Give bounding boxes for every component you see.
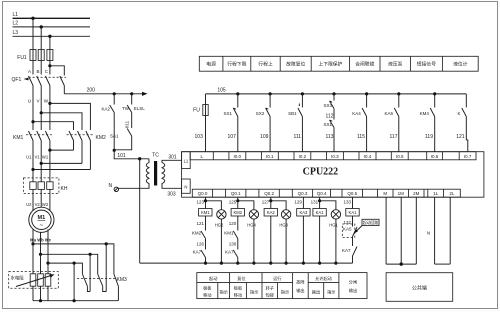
- terminal L1: [182, 152, 191, 169]
- svg-text:复位: 复位: [237, 275, 245, 282]
- node N symbol: [109, 183, 119, 192]
- wire rotor c to KM3 pole1: [48, 263, 82, 274]
- junction bottom bus riser c: [73, 299, 76, 302]
- wire rotor c: [47, 229, 49, 263]
- wire Q0.3 branch: [302, 197, 304, 208]
- junction V crossover: [40, 111, 43, 114]
- svg-text:L2: L2: [13, 21, 19, 27]
- svg-text:合闸联锁: 合闸联锁: [355, 61, 374, 68]
- svg-text:KA2: KA2: [102, 107, 111, 112]
- junction rotor a feed: [31, 242, 34, 245]
- contact KA5 latched: [342, 224, 357, 246]
- svg-text:131: 131: [311, 200, 319, 205]
- junction 200-TW: [130, 92, 133, 95]
- contactor KM3 pole3: [114, 274, 119, 301]
- svg-text:M: M: [383, 191, 387, 196]
- svg-text:运行: 运行: [273, 275, 281, 282]
- svg-text:KA2: KA2: [267, 210, 276, 215]
- svg-text:I0.4: I0.4: [364, 154, 372, 159]
- wire Q0.1 branch: [237, 197, 239, 208]
- wire W to KM2 pole3: [50, 103, 91, 130]
- svg-text:水电阻: 水电阻: [11, 275, 25, 282]
- lamp HG4: [249, 210, 258, 219]
- wire 2M down: [415, 197, 417, 264]
- contactor KM3 linkage: [77, 278, 115, 280]
- wire lamp HG4 down: [253, 219, 255, 263]
- junction lamp HG4 bus: [252, 262, 255, 265]
- svg-text:125: 125: [229, 200, 237, 205]
- breaker QF1 pole C: [45, 76, 50, 101]
- coil KA3: [297, 209, 310, 217]
- junction KA1 branch bus: [318, 262, 321, 265]
- wire W2 to motor: [49, 204, 51, 211]
- wire phase B drop: [40, 27, 42, 50]
- wire A to breaker: [32, 61, 34, 75]
- coil KM1: [199, 209, 212, 217]
- junction 105-KA5: [397, 92, 400, 95]
- terminal N: [182, 179, 191, 193]
- svg-text:117: 117: [390, 134, 398, 140]
- svg-text:KA4: KA4: [352, 111, 361, 116]
- svg-text:输出: 输出: [296, 287, 304, 294]
- wire 2L down: [449, 197, 451, 264]
- wire N riser: [139, 159, 141, 263]
- svg-text:129: 129: [294, 200, 302, 205]
- svg-text:A: A: [28, 69, 31, 74]
- svg-text:I0.1: I0.1: [266, 154, 274, 159]
- svg-text:I0.3: I0.3: [331, 154, 339, 159]
- lamp HG2: [217, 210, 226, 219]
- svg-text:电源: 电源: [206, 61, 216, 68]
- svg-text:I0.0: I0.0: [234, 154, 242, 159]
- lamp HG3: [281, 210, 290, 219]
- contact KA5: [394, 94, 399, 152]
- wire lamp HG2 down: [220, 219, 222, 263]
- wire lamp HG1 down: [335, 219, 337, 263]
- junction on L3: [48, 35, 51, 38]
- breaker QF1 pole A: [29, 76, 34, 101]
- water resistor arrow: [16, 274, 55, 286]
- svg-text:转子: 转子: [266, 285, 274, 292]
- svg-text:130: 130: [229, 242, 237, 247]
- junction C tap: [48, 64, 51, 67]
- wire U to KM2 pole1: [33, 122, 74, 130]
- junction N riser top: [138, 157, 141, 160]
- svg-text:FU: FU: [193, 108, 200, 114]
- breaker QF1 arrow: [24, 78, 29, 81]
- svg-text:126: 126: [196, 242, 204, 247]
- junction lamp HG2 bus: [220, 262, 223, 265]
- signal legend table: [199, 56, 478, 71]
- svg-text:HG2: HG2: [215, 223, 224, 228]
- junction rotor b feed: [39, 253, 42, 256]
- svg-text:FU1: FU1: [17, 55, 27, 61]
- svg-text:KA5: KA5: [384, 111, 393, 116]
- fuse FU: [203, 94, 208, 152]
- svg-text:移动: 移动: [203, 292, 211, 299]
- junction U crossover: [31, 120, 34, 123]
- svg-text:101: 101: [117, 153, 126, 159]
- svg-text:指示: 指示: [327, 289, 335, 296]
- PLC CPU222 body: [182, 152, 484, 198]
- wire rotor b to KM3 pole2: [41, 254, 98, 274]
- contact KM1 interlock: [233, 231, 238, 250]
- svg-text:行程上: 行程上: [258, 61, 273, 68]
- wire C tap to aux pole: [50, 66, 64, 76]
- svg-text:2L: 2L: [449, 191, 455, 196]
- junction Q0.2 split: [269, 199, 272, 202]
- svg-text:Q0.0: Q0.0: [198, 191, 208, 196]
- svg-text:SX2: SX2: [256, 111, 265, 116]
- svg-text:起动回路: 起动回路: [363, 220, 378, 225]
- svg-text:120: 120: [229, 221, 237, 226]
- wire L bus join: [435, 263, 451, 265]
- coil KM2: [231, 209, 244, 217]
- svg-text:ELSL: ELSL: [134, 106, 146, 111]
- svg-text:N: N: [109, 183, 113, 189]
- wire L2: [13, 26, 91, 28]
- svg-text:短接信号: 短接信号: [417, 61, 436, 68]
- wire KA1b coil down: [352, 216, 354, 227]
- contactor KM2 pole1: [69, 131, 74, 150]
- wire U1 drop: [32, 151, 34, 178]
- wire KM2 pole1 to W1: [50, 149, 74, 151]
- svg-text:127: 127: [262, 200, 270, 205]
- svg-text:指示: 指示: [281, 289, 289, 296]
- svg-text:200: 200: [87, 88, 96, 94]
- svg-text:M1: M1: [38, 215, 46, 221]
- wire to 101: [114, 150, 149, 159]
- svg-text:107: 107: [228, 134, 237, 140]
- switch SA1: [114, 129, 132, 150]
- coil KA1: [313, 209, 326, 217]
- wire KM1 coil down: [205, 216, 207, 231]
- junction lamp HG3 bus: [285, 262, 288, 265]
- wire M bus join: [386, 263, 416, 265]
- svg-text:K: K: [457, 111, 460, 116]
- thermal relay KH element A: [30, 178, 36, 204]
- svg-text:KA7: KA7: [342, 248, 351, 253]
- fuse FU1 pole C: [47, 50, 53, 61]
- svg-text:故障复位: 故障复位: [286, 61, 305, 68]
- switch SX3: [330, 94, 335, 109]
- svg-text:011: 011: [124, 120, 129, 128]
- svg-text:公共端: 公共端: [412, 285, 427, 292]
- svg-text:SX1: SX1: [223, 111, 232, 116]
- switch TW: [127, 94, 132, 113]
- svg-text:115: 115: [357, 134, 365, 140]
- svg-text:I0.2: I0.2: [299, 154, 307, 159]
- thermal relay KH element C: [47, 178, 53, 204]
- svg-text:Wa: Wa: [30, 238, 37, 243]
- svg-text:121: 121: [196, 221, 204, 226]
- svg-text:TC: TC: [152, 153, 159, 159]
- junction KA2 branch bus: [269, 262, 272, 265]
- svg-text:输出: 输出: [312, 289, 320, 296]
- svg-text:119: 119: [425, 134, 433, 140]
- contact KM2 interlock: [201, 231, 206, 250]
- svg-text:B: B: [36, 69, 39, 74]
- svg-text:Wc: Wc: [45, 238, 52, 243]
- contact KA7 c2: [233, 250, 238, 263]
- svg-text:L1: L1: [13, 12, 19, 18]
- svg-text:103: 103: [195, 134, 204, 140]
- contact KA4: [362, 94, 367, 152]
- svg-text:KM1: KM1: [224, 231, 234, 236]
- contactor KM3 pole2: [98, 274, 107, 292]
- contactor KM1 pole C: [45, 131, 50, 151]
- svg-text:109: 109: [260, 134, 269, 140]
- contactor KM1 linkage: [26, 134, 52, 136]
- wire TW to SA1: [131, 113, 133, 129]
- svg-text:极板: 极板: [234, 285, 243, 292]
- svg-text:故障: 故障: [296, 279, 304, 286]
- wire to lamp HG1: [320, 201, 336, 210]
- svg-text:指示: 指示: [250, 289, 258, 296]
- junction Q0.0 split: [204, 199, 207, 202]
- svg-text:SA1: SA1: [110, 134, 119, 139]
- svg-text:KM1: KM1: [13, 135, 24, 141]
- svg-text:Q0.5: Q0.5: [347, 191, 357, 196]
- svg-text:KA3: KA3: [299, 210, 308, 215]
- svg-text:1L: 1L: [433, 191, 439, 196]
- wire L1: [13, 17, 91, 19]
- svg-text:HG3: HG3: [279, 223, 288, 228]
- junction W crossover: [48, 102, 51, 105]
- wire riser c to bus: [73, 263, 75, 301]
- thermal relay KH element B: [38, 178, 44, 204]
- wire V to KM2 pole2: [41, 113, 82, 130]
- svg-text:V2: V2: [35, 202, 41, 207]
- junction Q0.4 split: [318, 199, 321, 202]
- contactor KM2 pole2: [78, 131, 83, 163]
- breaker QF1 linkage dashed: [29, 76, 67, 78]
- contact KM4: [430, 94, 435, 152]
- svg-text:KA7: KA7: [193, 250, 202, 255]
- svg-text:上下限保护: 上下限保护: [318, 61, 342, 68]
- junction 105-SX2: [269, 92, 272, 95]
- svg-text:303: 303: [167, 192, 176, 198]
- svg-text:KA1: KA1: [349, 210, 358, 215]
- svg-text:133: 133: [343, 200, 351, 205]
- svg-text:KM2: KM2: [192, 231, 202, 236]
- wire U drop: [32, 101, 34, 131]
- output terminal strip: [192, 189, 460, 197]
- svg-text:液压泵: 液压泵: [388, 61, 403, 68]
- svg-text:U2: U2: [26, 202, 32, 207]
- junction bottom bus b: [39, 299, 42, 302]
- svg-text:Q0.2: Q0.2: [264, 191, 274, 196]
- svg-text:Q0.4: Q0.4: [317, 191, 327, 196]
- wire riser b: [89, 254, 91, 291]
- svg-text:分闸: 分闸: [349, 279, 357, 286]
- svg-text:液位计: 液位计: [453, 61, 468, 68]
- svg-text:123: 123: [196, 200, 204, 205]
- wire to lamp HG2: [206, 201, 222, 210]
- svg-text:113: 113: [326, 134, 334, 140]
- svg-text:Wb: Wb: [37, 238, 44, 243]
- coil KA1b: [346, 209, 359, 217]
- svg-text:KH: KH: [61, 186, 68, 192]
- svg-text:Q0.3: Q0.3: [298, 191, 308, 196]
- wire KA1 coil down: [319, 216, 321, 263]
- svg-text:QF1: QF1: [12, 77, 22, 83]
- svg-text:U: U: [28, 99, 31, 104]
- junction KA3 branch bus: [302, 262, 305, 265]
- junction rotor b riser: [89, 253, 92, 256]
- wire riser a: [105, 244, 107, 292]
- fuse FU1 pole A: [30, 50, 36, 61]
- water resistor element b: [38, 254, 44, 300]
- wire KA3 coil down: [302, 216, 304, 263]
- junction on L2: [40, 25, 43, 28]
- junction rotor a riser: [105, 242, 108, 245]
- wire rotor bottom bus: [33, 300, 118, 302]
- wire L3: [13, 35, 91, 37]
- breaker QF1 pole B: [37, 76, 42, 101]
- wire KA2 coil down: [270, 216, 272, 263]
- svg-text:121: 121: [456, 134, 465, 140]
- transformer TC core: [154, 161, 157, 186]
- water resistor element c: [45, 263, 51, 301]
- svg-text:N: N: [184, 185, 187, 190]
- svg-text:KM2: KM2: [233, 210, 242, 215]
- svg-text:Q0.1: Q0.1: [231, 191, 241, 196]
- wire 200: [64, 93, 143, 95]
- svg-text:L1: L1: [184, 159, 189, 164]
- svg-text:N: N: [427, 231, 430, 236]
- wire Q0.0 branch: [205, 197, 207, 208]
- junction U1: [31, 168, 34, 171]
- wire KM2 pole3 to U1: [33, 169, 90, 171]
- motor M1: [29, 207, 54, 232]
- svg-text:1M: 1M: [398, 191, 405, 196]
- wire KM2 pole2 to V1: [41, 162, 82, 164]
- junction KM1 branch bus: [204, 262, 207, 265]
- svg-text:V: V: [36, 99, 39, 104]
- svg-text:U1: U1: [26, 154, 32, 159]
- svg-text:KM2: KM2: [96, 135, 107, 141]
- contactor KM2 linkage: [67, 134, 94, 136]
- wire lamp HG3 down: [285, 219, 287, 263]
- coil KA2: [264, 209, 277, 217]
- junction W1: [48, 149, 51, 152]
- contactor KM1 pole B: [37, 131, 42, 164]
- breaker QF1 aux pole: [60, 76, 65, 94]
- wire Q0.2 branch: [270, 197, 272, 208]
- svg-text:短接: 短接: [266, 292, 275, 299]
- svg-text:极板: 极板: [203, 285, 212, 292]
- wire C to breaker: [49, 61, 51, 75]
- wire V2 to motor: [40, 204, 42, 208]
- svg-text:W2: W2: [42, 202, 49, 207]
- switch SX2: [266, 94, 271, 152]
- wire V1 drop: [40, 164, 42, 178]
- svg-text:KM3: KM3: [117, 277, 128, 283]
- svg-text:301: 301: [168, 154, 177, 160]
- svg-text:I0.6: I0.6: [431, 154, 439, 159]
- svg-text:CPU222: CPU222: [303, 167, 339, 178]
- svg-text:KM1: KM1: [201, 210, 210, 215]
- junction 105-SX1: [236, 92, 239, 95]
- contact KA7 c6: [353, 247, 358, 264]
- common terminal box: [386, 273, 453, 302]
- output legend table: [197, 273, 367, 299]
- input terminal strip: [190, 152, 476, 160]
- junction KM2 branch bus: [236, 262, 239, 265]
- wire output common bus: [140, 262, 353, 264]
- svg-text:~: ~: [40, 223, 44, 229]
- wire 105 bus: [206, 93, 467, 95]
- svg-text:KA5: KA5: [343, 227, 352, 232]
- wire to lamp HG3: [271, 201, 286, 210]
- wire B to breaker: [40, 61, 42, 75]
- svg-text:允许起动: 允许起动: [315, 275, 332, 282]
- junction 1M bus: [400, 262, 403, 265]
- junction lamp HG1 bus: [334, 262, 337, 265]
- wire rotor b: [40, 232, 42, 254]
- switch SX4 series: [330, 109, 335, 152]
- junction 105-SX3: [332, 92, 335, 95]
- svg-text:2M: 2M: [413, 191, 420, 196]
- wire 1L down: [434, 197, 436, 264]
- junction 105-SB1: [301, 92, 304, 95]
- svg-text:行程下限: 行程下限: [227, 61, 246, 68]
- wire V drop: [40, 101, 42, 131]
- junction rotor c riser: [73, 262, 76, 265]
- wire phase C drop: [49, 36, 51, 49]
- wire U2 to motor: [32, 204, 34, 211]
- svg-text:输出: 输出: [349, 287, 357, 294]
- svg-text:SX1: SX1: [323, 122, 332, 127]
- wire 1M down: [400, 197, 402, 264]
- svg-text:V1: V1: [35, 154, 41, 159]
- transformer TC secondary: [162, 160, 182, 188]
- junction 105-KA4: [365, 92, 368, 95]
- svg-text:起动: 起动: [209, 275, 217, 282]
- contactor KM1 pole A: [29, 131, 34, 151]
- svg-text:111: 111: [293, 134, 301, 140]
- svg-text:I0.5: I0.5: [396, 154, 404, 159]
- wire 200 arrowhead: [142, 92, 148, 96]
- junction V1: [40, 162, 43, 165]
- pushbutton SB1: [298, 94, 303, 152]
- svg-text:KA7: KA7: [225, 250, 234, 255]
- svg-text:指示: 指示: [220, 289, 228, 296]
- callout start-loop box: [354, 219, 379, 233]
- svg-text:SX3: SX3: [323, 103, 332, 108]
- junction 105-KM4: [433, 92, 436, 95]
- contact KA7 c1: [201, 250, 206, 263]
- wire KM2 coil down: [237, 216, 239, 231]
- switch SX1: [233, 94, 238, 152]
- contactor KM2 pole3: [86, 131, 91, 170]
- wire M down: [385, 197, 387, 264]
- wire phase A drop: [32, 18, 34, 49]
- water resistor element a: [30, 244, 36, 301]
- svg-text:SB1: SB1: [288, 111, 297, 116]
- svg-text:112: 112: [326, 114, 334, 120]
- junction on L1: [31, 17, 34, 20]
- svg-text:W1: W1: [42, 154, 49, 159]
- wire rotor a to KM3 pole3: [33, 244, 114, 274]
- junction rotor c feed: [46, 262, 49, 265]
- contact KA2: [110, 94, 115, 151]
- wire Q0.5 branch: [352, 197, 354, 208]
- svg-text:TW: TW: [122, 106, 130, 111]
- wire W drop: [49, 101, 51, 131]
- lamp HG1: [331, 210, 340, 219]
